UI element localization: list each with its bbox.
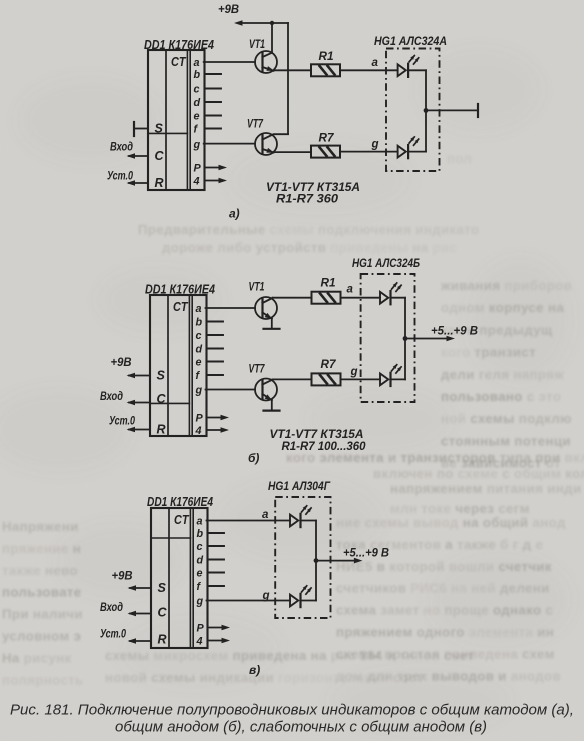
svg-text:счетчиков РИС6 на ней делени: счетчиков РИС6 на ней делени [336,581,550,596]
svg-text:e: e [197,568,203,580]
svg-text:b: b [197,528,204,540]
svg-text:d: d [194,97,201,109]
svg-text:пряжением одного элемента ин: пряжением одного элемента ин [336,625,554,640]
svg-text:НИЕ5 в которой вошли счетчик: НИЕ5 в которой вошли счетчик [336,559,552,574]
svg-text:R: R [157,422,166,436]
svg-text:VT1: VT1 [249,280,265,294]
svg-text:DD1 К176ИЕ4: DD1 К176ИЕ4 [147,495,213,509]
svg-text:c: c [197,541,203,553]
svg-text:Напряжени: Напряжени [2,519,79,534]
svg-text:g: g [262,590,270,602]
svg-text:e: e [194,111,200,123]
svg-text:g: g [371,139,379,151]
svg-text:d: d [196,344,203,356]
svg-text:млн токе через сегм: млн токе через сегм [390,501,530,516]
svg-text:c: c [196,330,202,342]
svg-text:R1: R1 [321,276,336,290]
svg-text:4: 4 [195,425,202,437]
svg-text:Вход: Вход [100,389,123,403]
svg-text:При наличи: При наличи [2,607,83,622]
svg-text:R: R [158,632,167,646]
svg-text:одном корпусе на: одном корпусе на [441,300,564,315]
svg-text:пользовате: пользовате [2,585,82,600]
svg-text:Рис. 181. Подключение полупров: Рис. 181. Подключение полупроводниковых … [10,702,574,719]
svg-text:R1-R7 360: R1-R7 360 [276,192,338,206]
svg-text:S: S [158,581,167,595]
svg-text:ние схемы вывод на общий анод: ние схемы вывод на общий анод [336,515,566,530]
svg-text:g: g [193,139,201,151]
svg-text:пряжение н: пряжение н [2,541,81,556]
svg-text:CT: CT [174,513,190,527]
svg-text:R: R [155,176,164,190]
svg-text:а): а) [229,207,240,221]
svg-text:Уст.0: Уст.0 [107,169,133,183]
svg-text:C: C [158,605,168,619]
svg-text:+9В: +9В [111,355,132,369]
svg-text:напряжением питания инди: напряжением питания инди [390,481,581,496]
svg-text:пользовано с это: пользовано с это [441,389,561,404]
svg-text:a: a [197,516,203,528]
svg-text:DD1 К176ИЕ4: DD1 К176ИЕ4 [145,283,215,297]
svg-text:пол: пол [447,151,472,166]
svg-text:c: c [194,84,200,96]
svg-text:+5...+9 В: +5...+9 В [431,326,478,338]
svg-text:g: g [195,385,203,397]
svg-text:Вход: Вход [110,140,133,154]
svg-text:C: C [157,392,167,406]
svg-text:новой схемы индикации горизонт: новой схемы индикации горизонтальная сос… [105,670,424,685]
svg-text:Предварительные схемы подключе: Предварительные схемы подключения индика… [138,222,479,237]
svg-text:a: a [347,284,354,296]
svg-text:4: 4 [196,636,203,648]
svg-text:VT7: VT7 [249,362,266,376]
svg-text:+9В: +9В [112,569,133,583]
svg-text:HG1 АЛС324А: HG1 АЛС324А [374,34,447,48]
svg-text:VT7: VT7 [247,117,264,131]
svg-text:DD1 К176ИЕ4: DD1 К176ИЕ4 [144,38,214,52]
svg-text:R7: R7 [321,357,337,371]
svg-text:b: b [196,317,203,329]
svg-text:дороже либо устройств приведен: дороже либо устройств приведены на рис [162,240,457,255]
svg-text:VT1: VT1 [249,37,265,51]
svg-text:+5...+9 В: +5...+9 В [343,548,389,560]
svg-text:На рисунк: На рисунк [2,650,72,665]
svg-text:б): б) [248,451,259,465]
svg-text:CT: CT [173,300,189,314]
svg-text:P: P [194,163,202,175]
svg-text:R7: R7 [319,131,335,145]
svg-text:полярность: полярность [2,672,84,687]
svg-text:стоянным потенци: стоянным потенци [441,433,571,448]
svg-text:b: b [194,69,201,81]
svg-text:R1: R1 [319,49,334,63]
svg-text:e: e [196,357,202,369]
svg-text:дели геля напряж: дели геля напряж [441,367,564,382]
svg-text:условном э: условном э [2,629,81,644]
svg-text:P: P [196,413,204,425]
svg-text:Вход: Вход [100,600,123,614]
svg-text:в): в) [249,663,260,677]
svg-text:C: C [155,149,165,163]
svg-text:P: P [197,623,205,635]
svg-text:d: d [197,555,204,567]
svg-text:также нево: также нево [2,563,78,578]
svg-text:g: g [350,366,358,378]
svg-text:кого транзист: кого транзист [441,345,536,360]
svg-text:ной схемы подклю: ной схемы подклю [441,411,572,426]
svg-text:схемы микросхем приведена на р: схемы микросхем приведена на рис 184 и т… [105,648,474,663]
svg-text:включен по схеме с общим колле: включен по схеме с общим колле [373,466,584,481]
svg-text:a: a [372,57,379,69]
svg-text:g: g [196,596,204,608]
svg-text:a: a [194,57,200,69]
svg-text:живания приборов: живания приборов [440,278,572,293]
svg-text:HG1 АЛ304Г: HG1 АЛ304Г [268,479,331,493]
svg-text:S: S [157,368,166,382]
svg-text:4: 4 [193,176,200,188]
svg-text:Уст.0: Уст.0 [109,414,135,428]
svg-text:общим анодом (б), слаботочных: общим анодом (б), слаботочных с общим ан… [115,719,487,736]
svg-text:S: S [155,121,164,135]
svg-text:a: a [196,303,202,315]
svg-text:HG1 АЛС324Б: HG1 АЛС324Б [352,256,420,270]
svg-text:a: a [262,509,269,521]
svg-text:Уст.0: Уст.0 [100,627,126,641]
svg-text:CT: CT [171,55,187,69]
svg-text:схема замет но проще однако с: схема замет но проще однако с [336,603,553,618]
svg-text:R1-R7 100...360: R1-R7 100...360 [282,439,366,453]
svg-text:+9В: +9В [218,2,239,16]
